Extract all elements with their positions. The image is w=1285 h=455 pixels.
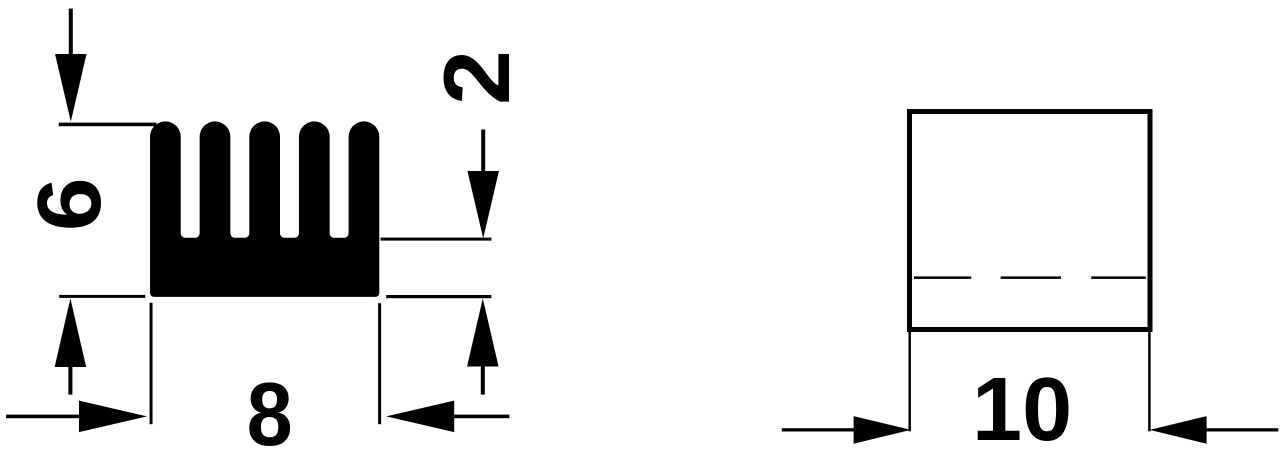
extension line left (dimension 8) <box>150 303 153 425</box>
arrow down (dimension 6 top) <box>55 9 87 122</box>
dimension line with left arrow (dimension 10 right) <box>1150 416 1279 444</box>
square outline (top view of heatsink) <box>910 112 1151 330</box>
heatsink profile (5-fin extrusion cross-section) <box>150 121 379 297</box>
hidden dashed line segment 2 <box>1001 276 1061 279</box>
extension line right (dimension 8) <box>378 303 381 424</box>
svg-text:6: 6 <box>20 177 120 231</box>
hidden dashed line segment 3 <box>1091 276 1146 279</box>
arrow down (dimension 2) <box>467 130 499 239</box>
reference line at fin-root level (dimension 2 upper) <box>381 238 492 241</box>
arrow up (dimension 6 bottom) <box>55 299 87 395</box>
svg-text:8: 8 <box>247 365 293 455</box>
reference line at fin-top level (dimension 6 upper) <box>59 123 157 127</box>
reference line at base-bottom level left (dimension 6 lower) <box>59 295 145 298</box>
dimension line with right arrow (dimension 8 left) <box>6 401 147 433</box>
hidden dashed line segment 1 <box>914 276 971 279</box>
arrow up (dimension 2) <box>467 299 499 395</box>
extension line right (dimension 10) <box>1148 332 1151 432</box>
svg-text:10: 10 <box>972 360 1072 455</box>
svg-text:2: 2 <box>424 50 529 105</box>
dimension line with left arrow (dimension 8 right) <box>386 401 509 433</box>
dimension line with right arrow (dimension 10 left) <box>782 416 911 444</box>
reference line at base-bottom level right (dimension 2 lower) <box>386 295 491 298</box>
extension line left (dimension 10) <box>908 332 911 432</box>
